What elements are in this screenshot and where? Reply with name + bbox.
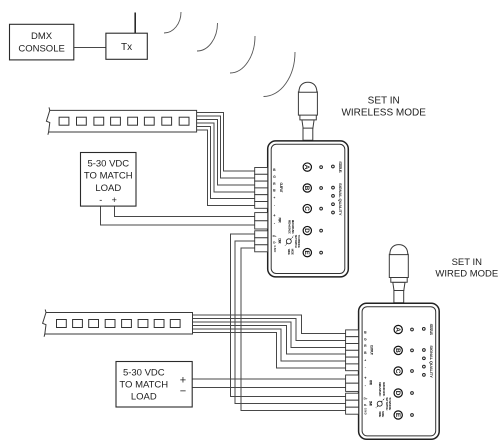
wire PSU1 + to rx1 PWR+ — [114, 206, 254, 217]
wire PSU1 - to rx1 PWR- — [101, 206, 255, 225]
wire rx1 DMX1 to rx2 DMX1 — [231, 234, 346, 396]
RF wave arc 2 — [197, 23, 218, 51]
svg-text:TO MATCH: TO MATCH — [119, 379, 168, 390]
wire PSU2 + to rx2 PWR+ — [192, 378, 345, 380]
wire strip2 pin2 to rx2 OUTPUT2 — [193, 318, 346, 340]
power supply PS1 — [81, 153, 137, 207]
label SET IN WIRELESS MODE — [341, 95, 426, 118]
wire rx1 DMX2 to rx2 DMX2 — [235, 241, 346, 403]
svg-text:WIRELESS MODE: WIRELESS MODE — [341, 107, 426, 118]
svg-text:5-30 VDC: 5-30 VDC — [87, 158, 129, 169]
RF wave arc 3 — [230, 36, 255, 73]
LED strip 2 — [43, 310, 193, 337]
receiver R1 (wireless mode) — [255, 82, 349, 277]
wire strip2 pin1 to rx2 OUTPUT1 — [193, 315, 346, 334]
svg-text:SET IN: SET IN — [452, 257, 483, 268]
RF wave arc 1 — [164, 12, 181, 33]
svg-text:DMX: DMX — [31, 31, 53, 42]
svg-text:TO MATCH: TO MATCH — [84, 170, 133, 181]
wire console to Tx — [74, 47, 106, 49]
receiver R2 (wired mode) — [346, 245, 440, 440]
wire strip1 pin2 to rx1 OUTPUT2 — [197, 116, 255, 178]
svg-text:−: − — [180, 386, 186, 398]
svg-text:LOAD: LOAD — [95, 183, 121, 194]
transmitter Tx — [106, 33, 147, 59]
wire strip1 pin4 to rx1 OUTPUT4 — [197, 123, 255, 192]
DMX console — [10, 24, 74, 60]
wire rx1 DMX3 to rx2 DMX3 — [241, 248, 346, 410]
wire strip2 pin5 to rx2 OUTPUT5 — [193, 329, 346, 361]
svg-text:-: - — [99, 195, 102, 205]
RF wave arc 4 — [264, 52, 296, 97]
svg-text:LOAD: LOAD — [131, 392, 157, 403]
svg-text:CONSOLE: CONSOLE — [18, 44, 64, 55]
wire strip1 pin6 to rx1 OUTPUT6 — [197, 130, 255, 205]
power supply PS2 — [116, 362, 192, 408]
svg-text:+: + — [180, 374, 186, 386]
label SET IN WIRED MODE — [435, 257, 498, 280]
svg-text:Tx: Tx — [121, 42, 132, 53]
wire strip2 pin3 to rx2 OUTPUT3 — [193, 322, 346, 348]
Tx antenna — [134, 13, 136, 34]
wire strip1 pin5 to rx1 OUTPUT5 — [197, 127, 255, 199]
LED strip 1 — [46, 107, 196, 134]
wire strip1 pin1 to rx1 OUTPUT1 — [197, 113, 255, 172]
wire strip1 pin3 to rx1 OUTPUT3 — [197, 120, 255, 186]
svg-text:SET IN: SET IN — [368, 95, 400, 106]
svg-text:5-30 VDC: 5-30 VDC — [123, 368, 165, 379]
svg-text:+: + — [112, 195, 117, 205]
wire PSU2 - to rx2 PWR- — [192, 386, 345, 388]
wire strip2 pin4 to rx2 OUTPUT4 — [193, 325, 346, 354]
svg-text:WIRED MODE: WIRED MODE — [435, 268, 498, 279]
wire strip2 pin6 to rx2 OUTPUT6 — [193, 332, 346, 368]
